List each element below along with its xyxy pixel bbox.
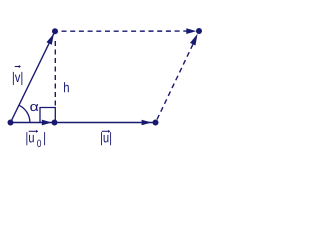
angle arc alpha — [19, 105, 30, 122]
wire: bottom solid line A to B (vector u baseline) — [11, 122, 156, 124]
label |u| with vector arrow — [101, 132, 111, 145]
arrowhead u0 — [42, 120, 52, 126]
label |v| with vector arrow — [13, 72, 22, 85]
arrowhead top — [186, 28, 196, 34]
arrowhead u — [142, 120, 152, 126]
node B (bottom-right dot) — [153, 120, 159, 126]
wire: dashed height line h — [54, 41, 56, 108]
label |u0| with vector arrow and subscript — [26, 132, 45, 147]
wire: top dashed line D to C — [62, 30, 190, 32]
arrowhead right side — [190, 34, 198, 46]
node C (top-right dot) — [196, 28, 202, 34]
node A (bottom-left dot) — [8, 120, 14, 126]
wire: vector v solid line A to D — [11, 31, 56, 122]
label h — [64, 82, 69, 92]
node F (projection foot dot) — [52, 120, 58, 126]
node D (top-left dot) — [52, 28, 58, 34]
label alpha — [30, 104, 38, 111]
wire: right dashed line B to C — [157, 44, 193, 119]
arrowhead v — [46, 34, 54, 45]
right angle square marker — [40, 108, 55, 123]
